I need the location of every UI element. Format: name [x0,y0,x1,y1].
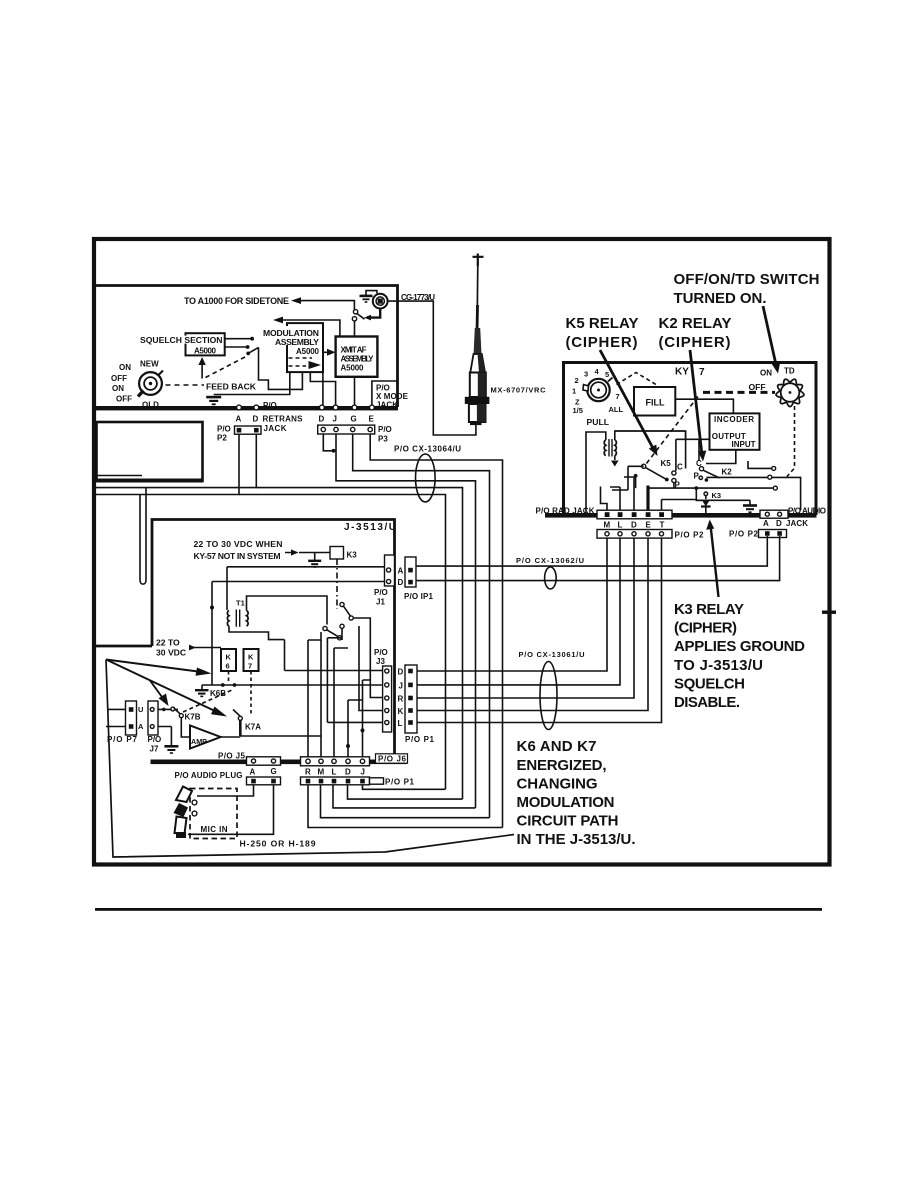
svg-text:(CIPHER): (CIPHER) [566,334,638,351]
svg-text:L: L [398,719,403,728]
svg-text:(CIPHER): (CIPHER) [674,620,737,637]
amplifier AMP [190,726,221,749]
svg-text:K2 RELAY: K2 RELAY [659,315,732,332]
panel bottom bus (thick) [151,760,407,765]
squelch contacts [225,339,303,390]
svg-text:A: A [236,415,242,424]
contact K7A [238,716,242,720]
connector P/O P7 [126,701,137,735]
bottom L-runs joining vertical bundle [308,785,503,828]
svg-text:D: D [776,519,782,528]
svg-text:OFF: OFF [749,382,766,392]
svg-text:MX-6707/VRC: MX-6707/VRC [491,386,547,395]
svg-text:(CIPHER): (CIPHER) [659,334,731,351]
svg-text:OLD: OLD [142,401,159,410]
svg-text:INPUT: INPUT [732,440,756,449]
P/O P2 strip (left) [597,530,672,539]
J-3513/U panel [92,520,514,858]
svg-text:P/O J6: P/O J6 [378,755,407,764]
svg-text:P/O AUDIO: P/O AUDIO [788,507,826,516]
svg-text:P/O: P/O [374,648,388,657]
center vertical wires to J6 [308,632,363,758]
svg-text:P/O P2: P/O P2 [729,530,759,539]
equipment outline box (left) [97,422,203,481]
svg-text:C: C [677,463,683,472]
svg-text:K5 RELAY: K5 RELAY [566,315,639,332]
cable P/O CX-13062/U [545,567,557,589]
wires into P7 from left [106,709,126,726]
svg-text:K: K [226,653,232,662]
svg-text:TD: TD [784,367,795,376]
svg-text:J: J [399,682,403,691]
svg-text:TO J-3513/U: TO J-3513/U [674,657,763,674]
wire FILL to INCODER [675,399,733,413]
svg-text:P/O: P/O [378,425,392,434]
wire retrans A down-left with loop stub [96,435,256,495]
ground near aud jack [696,500,750,504]
cable P/O CX-13064/U [416,454,436,502]
svg-text:22 TO: 22 TO [156,638,180,648]
unterminated loop stub [140,488,146,585]
INCODER wires [699,439,736,463]
wires P2 MLDET down to P1 [417,538,662,722]
svg-text:P/O RAD JACK: P/O RAD JACK [536,507,595,516]
svg-text:T1: T1 [236,599,245,608]
svg-text:ON: ON [119,363,131,372]
svg-text:L: L [332,768,337,777]
svg-text:ENERGIZED,: ENERGIZED, [517,757,607,774]
wire from jack to switch arm [367,309,380,318]
svg-text:P/O P7: P/O P7 [107,735,138,744]
main body [470,373,486,398]
connector CG-1773/U jack [373,294,388,309]
svg-text:JACK: JACK [786,519,808,528]
svg-text:ASSEMBLY: ASSEMBLY [341,354,375,363]
svg-text:DISABLE.: DISABLE. [674,694,740,711]
leader to K5 contact [600,350,654,450]
svg-text:K3 RELAY: K3 RELAY [674,601,744,618]
bus terminals [237,405,242,410]
svg-text:KY: KY [675,367,689,378]
ground below K3 wire [314,553,316,561]
callout texts [517,271,820,848]
svg-text:OFF: OFF [111,374,127,383]
svg-text:P/O CX-13061/U: P/O CX-13061/U [519,650,585,659]
antenna tip [473,254,484,267]
wire P3 G [353,435,490,818]
svg-text:P/O J5: P/O J5 [218,752,246,761]
wires from assemblies down to bus [310,321,396,406]
connector P/O IP1 [405,557,416,587]
svg-text:P/O IP1: P/O IP1 [404,592,434,601]
squelch section box A5000 [186,333,225,355]
modulation relay contact upper [340,602,344,606]
feed wire from CG jack to antenna [388,301,476,435]
svg-text:KY-57 NOT IN SYSTEM: KY-57 NOT IN SYSTEM [194,551,281,561]
relay K7 [244,649,259,671]
wire from ground to modulation box [214,372,290,395]
dashed linkage to K5 contact [645,397,699,467]
rotary keying switch [587,379,609,401]
wire P3 E [370,435,502,828]
svg-text:J-3513/U: J-3513/U [344,522,396,533]
outer border frame [94,239,836,911]
connector P/O J7 [148,701,158,735]
svg-text:K3: K3 [347,551,358,560]
svg-text:OFF/ON/TD SWITCH: OFF/ON/TD SWITCH [674,271,820,288]
registration tick on right frame edge [822,611,836,614]
connector P/O P1 [405,665,417,733]
svg-text:J: J [333,415,337,424]
svg-text:P/O CX-13064/U: P/O CX-13064/U [394,445,461,454]
svg-text:L: L [618,521,623,530]
base [470,422,482,426]
svg-text:IN THE J-3513/U.: IN THE J-3513/U. [517,831,636,848]
handset plug body [176,787,192,803]
svg-text:CIRCUIT PATH: CIRCUIT PATH [517,813,619,830]
svg-text:D: D [398,668,404,677]
bottom horizontal rule [95,908,822,911]
contact K7B [154,708,178,710]
svg-text:RETRANS: RETRANS [263,415,304,424]
second arrow to modulation area [276,320,340,352]
svg-text:K: K [398,707,404,716]
svg-text:7: 7 [616,392,620,401]
svg-text:5: 5 [605,370,609,379]
dashed mechanical link to FILL [617,373,657,385]
svg-text:TO A1000 FOR SIDETONE: TO A1000 FOR SIDETONE [184,296,289,306]
wire L to J3 [327,721,382,723]
connector strip below A G [247,777,281,785]
modulation relay contact lower [323,626,327,630]
T1 connections [229,596,327,671]
wires K5 area [615,431,710,471]
AUD JACK strip [760,510,788,518]
feedback dashed link [166,384,205,386]
xmit af assembly box [336,337,378,377]
svg-text:P/O: P/O [263,401,277,410]
handset H-250 dashed outline [190,789,237,839]
svg-text:R: R [305,768,311,777]
svg-text:U: U [138,705,143,714]
INCODER box [710,413,760,449]
dashed internal path with arrow [289,357,313,359]
lower body [469,404,486,422]
svg-text:H-250 OR H-189: H-250 OR H-189 [240,839,316,849]
svg-text:K5: K5 [661,459,672,468]
svg-text:P/O: P/O [148,735,162,744]
ground symbol (squelch) [206,396,221,399]
leader to K6/K7 callout [106,660,514,858]
svg-text:JACK: JACK [264,424,287,433]
ground at CG jack [366,291,377,295]
svg-text:A: A [250,768,256,777]
svg-text:TURNED ON.: TURNED ON. [674,290,767,307]
svg-text:ON: ON [760,369,772,378]
svg-text:J: J [361,768,365,777]
svg-text:JACK: JACK [376,401,398,410]
leader to K2 contact [690,350,702,455]
relay K6 [221,649,236,671]
connector strip P/O P1 (audio) [301,777,370,785]
center lattice verticals to bus [601,477,635,513]
connector P/O P2 (retrans) [235,426,262,434]
dashed line from switch down to contacts [787,406,795,477]
antenna MX-6707/VRC [388,254,546,436]
svg-text:SQUELCH: SQUELCH [674,675,745,692]
svg-text:PULL: PULL [587,417,609,427]
svg-text:A: A [763,519,769,528]
svg-text:J1: J1 [376,598,385,607]
transformer (KY-57) [604,440,606,456]
svg-text:P/O P1: P/O P1 [385,778,415,787]
long wire left from K2 region [648,487,773,489]
wires right P2 A D down to IP1 [416,536,780,581]
svg-text:K: K [248,653,254,662]
svg-text:A: A [138,722,144,731]
svg-text:P/O AUDIO PLUG: P/O AUDIO PLUG [175,771,243,780]
panel outline [152,520,395,761]
panel outline [564,363,817,516]
svg-text:CHANGING: CHANGING [517,775,598,792]
svg-text:30 VDC: 30 VDC [156,648,186,658]
retrans connectors and cable runs [96,422,503,828]
connector P/O J6 [301,757,370,766]
KY-57 panel [416,363,826,730]
svg-text:K7A: K7A [245,723,261,732]
svg-text:FILL: FILL [646,398,665,408]
svg-text:INCODER: INCODER [714,415,754,424]
modulation assembly box [287,323,323,372]
svg-text:D: D [345,768,351,777]
whip [476,264,479,310]
diode below transformer [614,456,616,461]
connector P/O J1 [385,555,395,586]
svg-text:6: 6 [226,662,230,671]
mounting band [465,397,490,404]
svg-text:P/O CX-13062/U: P/O CX-13062/U [516,556,584,565]
rotary switch (old/new) knob [139,372,162,395]
svg-text:A5000: A5000 [296,347,320,356]
ground below J7 [152,727,171,746]
dash-dot control line from K3 [336,559,338,609]
svg-text:D: D [319,415,325,424]
svg-text:P2: P2 [217,434,227,443]
svg-text:ASSEMBLY: ASSEMBLY [275,337,319,347]
panel bottom bus (thick) [545,513,817,518]
svg-text:P/O: P/O [217,425,231,434]
svg-text:K2: K2 [722,468,733,477]
svg-text:ON: ON [112,384,124,393]
svg-text:T: T [660,521,665,530]
svg-text:3: 3 [584,370,588,379]
svg-text:P/O P2: P/O P2 [675,531,705,540]
svg-text:G: G [351,415,357,424]
dashed actuator drops [228,671,230,684]
contact K6B [221,683,225,687]
svg-text:SQUELCH SECTION: SQUELCH SECTION [140,335,223,345]
panel bottom bus (thick) [94,406,398,410]
connector P/O J3 [383,666,392,732]
top-left panel [94,286,435,434]
svg-text:E: E [646,521,652,530]
svg-text:7: 7 [699,367,705,378]
wires A and D into J1 [212,567,385,582]
svg-text:K6 AND K7: K6 AND K7 [517,738,597,755]
svg-text:MIC IN: MIC IN [201,825,228,834]
svg-text:M: M [604,521,611,530]
svg-text:D: D [631,521,637,530]
amp output to K7A and on [221,736,321,737]
svg-text:P3: P3 [378,435,388,444]
svg-text:1: 1 [572,387,576,396]
svg-text:ALL: ALL [609,405,624,414]
svg-text:A: A [398,567,404,576]
FILL box [634,387,675,416]
svg-text:OFF: OFF [116,395,132,404]
svg-text:M: M [318,768,325,777]
svg-text:A5000: A5000 [341,363,365,372]
svg-text:7: 7 [248,662,252,671]
svg-text:1/5: 1/5 [573,406,583,415]
svg-text:XMIT AF: XMIT AF [341,345,367,354]
svg-text:APPLIES GROUND: APPLIES GROUND [674,638,805,655]
cable P/O CX-13061/U [540,662,557,730]
leader to K3 on bus [711,525,719,597]
K2 wires and right contact bank [706,477,800,510]
svg-text:MODULATION: MODULATION [517,794,615,811]
svg-text:2: 2 [575,376,579,385]
svg-text:J3: J3 [376,657,385,666]
relay K3 box [330,547,344,560]
handset wires [188,785,274,835]
svg-text:AMP: AMP [191,737,207,746]
svg-text:J7: J7 [150,745,159,754]
K3 relay coil diode [696,488,702,500]
heavy dashed OFF line [703,391,775,394]
wire retrans A right run [239,488,463,799]
upper taper body [470,354,485,373]
wires P3 D-J link [323,435,475,808]
svg-text:E: E [369,415,375,424]
panel outline (top edge, right edge) [94,286,398,408]
connector P/O P3 [318,425,375,434]
svg-text:D: D [398,578,404,587]
svg-text:A5000: A5000 [194,346,217,355]
svg-text:NEW: NEW [140,360,159,369]
svg-text:G: G [271,767,277,776]
svg-text:P/O: P/O [374,588,388,597]
leader to OFF/ON/TD switch [763,306,777,367]
svg-text:R: R [398,695,404,704]
svg-text:K7B: K7B [185,713,201,722]
switch at CG jack [353,310,357,314]
wire D to J3 [285,670,383,672]
wire J (K6B line) to J3 [202,684,383,686]
svg-text:FEED BACK: FEED BACK [206,382,257,392]
arrow modulation to xmit [323,351,331,353]
wires from contacts to J3 [327,618,382,722]
svg-text:D: D [253,415,259,424]
svg-text:P/O P1: P/O P1 [405,735,435,744]
svg-text:22 TO 30 VDC WHEN: 22 TO 30 VDC WHEN [194,539,283,549]
svg-text:K3: K3 [712,491,722,500]
wire TO A1000 FOR SIDETONE [294,301,354,310]
dashed link K6B-K7B-K7A [183,690,232,712]
